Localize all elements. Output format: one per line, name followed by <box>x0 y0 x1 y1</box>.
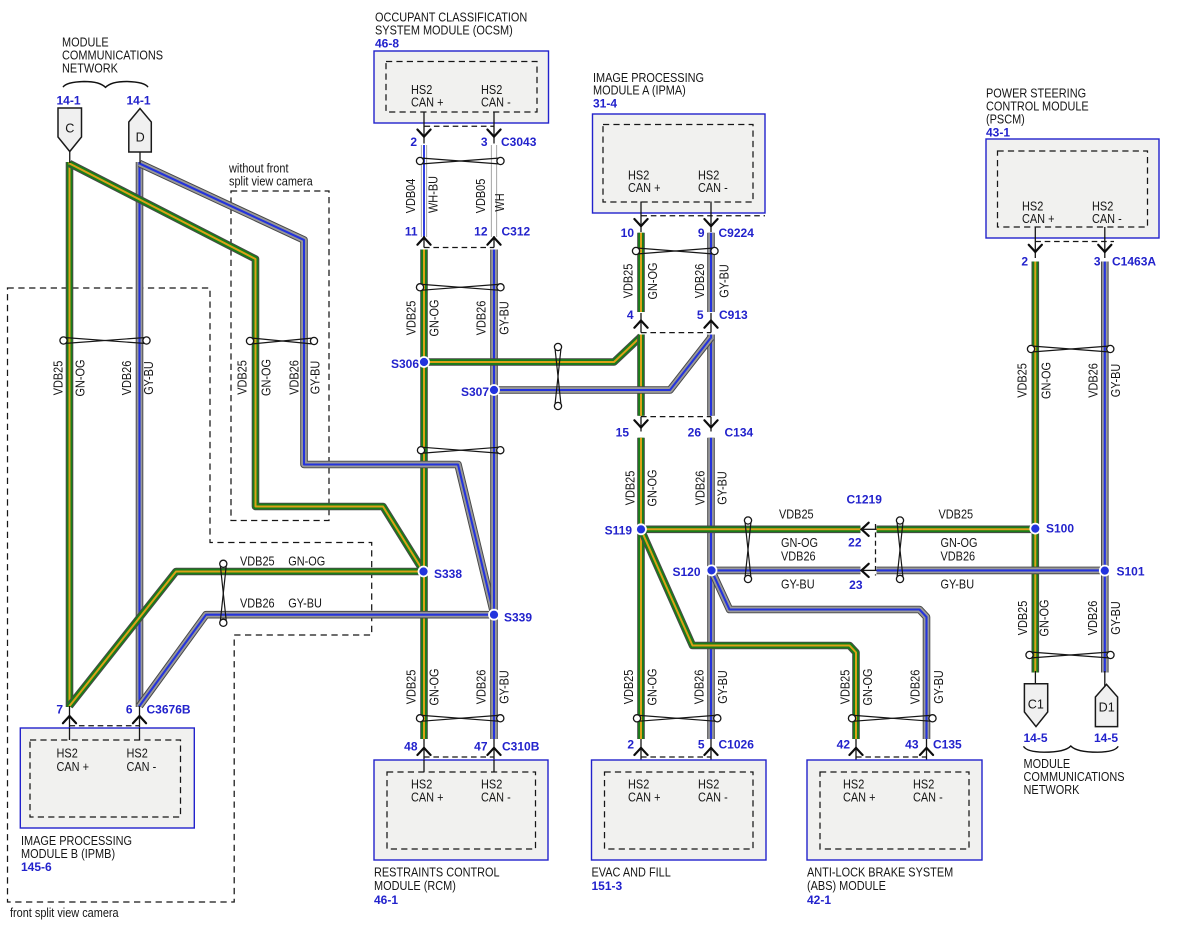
connector C1463A label <box>1112 255 1156 269</box>
module RCM box <box>374 760 548 860</box>
svg-text:C1463A: C1463A <box>1112 255 1156 269</box>
svg-text:VDB25: VDB25 <box>621 670 636 705</box>
module IPMB text HS2 CAN - (pin 6) <box>127 746 157 775</box>
wire label VDB26 <box>474 670 489 705</box>
wire label GN-OG <box>259 359 274 396</box>
splice S306 <box>419 357 429 367</box>
svg-text:GN-OG: GN-OG <box>1037 600 1052 637</box>
OCSM pin 3 arrow <box>487 130 500 137</box>
RCM pin 48 label <box>404 740 418 754</box>
connector D1 cavity label 14-5 <box>1094 731 1118 745</box>
svg-text:VDB26: VDB26 <box>908 670 923 705</box>
wire VDB26 GY-BU from C913 pin 5 to C134 pin 26 <box>707 335 715 416</box>
svg-text:CAN +: CAN + <box>411 790 444 805</box>
svg-text:VDB25: VDB25 <box>235 360 250 395</box>
C1219 pin 23 label <box>849 578 863 592</box>
wire label VDB25 <box>838 670 853 705</box>
twisted pair symbol (above C1/D1) <box>1026 651 1114 658</box>
wire label GY-BU <box>715 670 730 704</box>
RCM pin 47 label <box>474 740 488 754</box>
IPMB pin 7 stub <box>69 706 71 740</box>
svg-text:GN-OG: GN-OG <box>645 263 660 300</box>
connector C stub wire <box>69 151 71 163</box>
svg-text:4: 4 <box>627 308 634 322</box>
wire label VDB05 <box>473 179 488 214</box>
connector D cavity label 14-1 <box>126 94 150 108</box>
svg-text:VDB26: VDB26 <box>287 360 302 395</box>
wire label VDB26 <box>941 549 976 564</box>
IPMB pin 6 stub <box>139 706 141 740</box>
splice S120 <box>707 565 717 575</box>
C1219 pin 22 label <box>848 536 862 550</box>
svg-text:VDB26: VDB26 <box>781 549 816 564</box>
IPMA pin 10 stub <box>640 202 642 233</box>
svg-text:VDB26: VDB26 <box>692 264 707 299</box>
svg-text:9: 9 <box>698 226 705 240</box>
svg-text:D: D <box>136 131 145 145</box>
svg-text:(PSCM): (PSCM) <box>986 112 1025 127</box>
C312 pin 11 label <box>405 225 418 239</box>
RCM pin 48 stub <box>423 739 425 772</box>
wire VDB26 GY-BU from C134 pin 26 through S120 to EVAC pin 5 <box>707 438 715 739</box>
wire label GY-BU <box>308 361 323 395</box>
svg-text:GY-BU: GY-BU <box>1108 364 1123 398</box>
svg-text:C1: C1 <box>1028 698 1044 712</box>
svg-text:split view camera: split view camera <box>229 174 313 189</box>
wire label GY-BU <box>141 361 156 395</box>
module OCSM box <box>374 51 549 123</box>
svg-text:CAN +: CAN + <box>628 790 661 805</box>
wire VDB25 GN-OG from IPMA pin 10 to C913 pin 4 <box>637 233 645 312</box>
svg-text:VDB25: VDB25 <box>240 554 275 569</box>
wire label VDB26 <box>781 549 816 564</box>
wire label GY-BU <box>715 471 730 505</box>
module IPMA text HS2 CAN + (pin 10) <box>628 168 661 196</box>
connector C1 cavity label 14-5 <box>1023 731 1047 745</box>
IPMB pin 7 stub inside box <box>69 728 71 740</box>
connector C (module communications network 14-1) <box>58 108 82 152</box>
svg-text:GN-OG: GN-OG <box>645 669 660 706</box>
svg-text:CAN -: CAN - <box>698 180 728 195</box>
connector C134 label <box>725 426 754 440</box>
svg-text:S306: S306 <box>391 357 419 371</box>
wire label VDB25 <box>779 507 814 522</box>
EVAC pin 5 label <box>698 738 705 752</box>
wire VDB26 GY-BU from splice S120 to C1219 pin 23 <box>712 567 861 575</box>
wire label VDB25 <box>1015 601 1030 636</box>
wire label GY-BU <box>941 577 975 592</box>
C913 pin 4 label <box>627 308 634 322</box>
EVAC pin 2 arrow <box>634 748 647 755</box>
svg-text:WH: WH <box>492 193 507 211</box>
C913 pin 5 stub <box>710 313 712 333</box>
splice S306 label <box>391 357 419 371</box>
wire VDB25 GN-OG from C312 pin 11 through S306 and S338 to RCM pin 48 <box>420 250 428 740</box>
option region: front split view camera (dashed outline) <box>8 288 372 902</box>
svg-text:CAN +: CAN + <box>57 759 90 774</box>
wire label VDB26 <box>908 670 923 705</box>
IPMB pin 6 arrow <box>133 716 146 723</box>
wire label GN-OG <box>645 470 660 507</box>
twisted pair symbol (without-camera pair) <box>246 337 317 344</box>
module ABS title <box>807 865 953 894</box>
svg-text:23: 23 <box>849 578 863 592</box>
wire VDB04 WH-BU from OCSM pin 2 to C312 pin 11 <box>421 145 427 237</box>
connector D (module communications network 14-1) <box>129 109 152 153</box>
RCM pin 47 stub inside box <box>493 760 495 772</box>
wire label VDB25 <box>404 670 419 705</box>
C312 pin 12 stub <box>493 236 495 248</box>
svg-text:VDB26: VDB26 <box>240 596 275 611</box>
twisted pair symbol (RCM pair) <box>416 715 504 722</box>
svg-text:GY-BU: GY-BU <box>931 670 946 704</box>
wire label GN-OG <box>288 554 325 569</box>
wire VDB25 GN-OG from C134 pin 15 through S119 to EVAC pin 2 <box>637 438 645 739</box>
svg-text:CAN -: CAN - <box>481 95 511 110</box>
svg-text:C312: C312 <box>502 225 531 239</box>
splice S101 <box>1100 566 1110 576</box>
wire VDB26 GY-BU from C1219 pin 23 to splice S101 <box>877 567 1105 575</box>
option region: without front split view camera (dashed box) <box>231 191 329 521</box>
svg-text:C135: C135 <box>933 738 962 752</box>
twisted pair symbol (pair above S338) <box>417 447 504 454</box>
svg-text:GY-BU: GY-BU <box>288 596 322 611</box>
wire label VDB25 <box>1015 363 1030 398</box>
svg-text:GN-OG: GN-OG <box>1039 362 1054 399</box>
svg-text:S307: S307 <box>461 385 489 399</box>
EVAC pin 2 stub <box>640 739 642 772</box>
svg-text:GY-BU: GY-BU <box>715 670 730 704</box>
svg-text:WH-BU: WH-BU <box>426 176 441 213</box>
connector C310B dashed pin line <box>424 756 494 758</box>
svg-text:VDB26: VDB26 <box>1085 601 1100 636</box>
connector C312 dashed pin line <box>424 247 494 249</box>
wire label VDB25 <box>235 360 250 395</box>
wire label GN-OG <box>1039 362 1054 399</box>
svg-text:EVAC AND FILL: EVAC AND FILL <box>592 865 671 880</box>
svg-text:CAN -: CAN - <box>481 790 511 805</box>
module RCM title <box>374 865 500 894</box>
wire label GN-OG <box>781 535 818 550</box>
connector C3043 label <box>501 135 537 149</box>
IPMA pin 10 label <box>621 226 635 240</box>
wire VDB26 GY-BU from splice S120 to ABS pin 43 <box>712 571 927 740</box>
svg-text:GY-BU: GY-BU <box>141 361 156 395</box>
svg-text:5: 5 <box>697 308 704 322</box>
wire label VDB26 <box>1085 601 1100 636</box>
ABS pin 43 label <box>905 738 919 752</box>
svg-text:2: 2 <box>410 135 417 149</box>
wire label GN-OG <box>427 300 442 337</box>
twisted pair symbol (EVAC pair) <box>633 715 721 722</box>
module IPMA box <box>593 114 766 213</box>
wire VDB26 GY-BU from PSCM pin 3 through S101 to connector D1 <box>1101 262 1109 673</box>
connector C1 (module communications network 14-5) <box>1024 684 1047 727</box>
svg-text:VDB26: VDB26 <box>474 301 489 336</box>
module PSCM page ref 43-1 <box>986 126 1010 140</box>
svg-text:VDB05: VDB05 <box>473 179 488 214</box>
wire VDB25 GN-OG from splice S119 to C1219 pin 22 <box>641 525 861 533</box>
connector C1026 label <box>719 738 755 752</box>
svg-text:VDB25: VDB25 <box>621 264 636 299</box>
svg-text:CAN +: CAN + <box>411 95 444 110</box>
splice S307 label <box>461 385 489 399</box>
module IPMB title <box>21 833 132 861</box>
IPMB pin 6 label <box>126 703 133 717</box>
svg-text:S120: S120 <box>672 565 700 579</box>
wire label VDB25 <box>404 301 419 336</box>
svg-text:GY-BU: GY-BU <box>1108 601 1123 635</box>
connector C cavity label 14-1 <box>56 94 80 108</box>
svg-text:GN-OG: GN-OG <box>645 470 660 507</box>
svg-text:14-1: 14-1 <box>126 94 150 108</box>
svg-text:S101: S101 <box>1117 565 1145 579</box>
option region label: without front split view camera <box>228 161 313 189</box>
module EVAC text HS2 CAN - (pin 5) <box>698 777 728 805</box>
svg-text:47: 47 <box>474 740 488 754</box>
svg-text:GY-BU: GY-BU <box>781 577 815 592</box>
C913 pin 4 arrow <box>634 321 647 328</box>
svg-text:GY-BU: GY-BU <box>308 361 323 395</box>
OCSM pin 2 label <box>410 135 417 149</box>
ABS pin 42 arrow <box>849 748 862 755</box>
wire VDB25 GN-OG from connector C down to IPMB pin 7 <box>66 162 74 707</box>
svg-text:43: 43 <box>905 738 919 752</box>
svg-text:VDB26: VDB26 <box>692 670 707 705</box>
svg-text:NETWORK: NETWORK <box>62 61 118 76</box>
svg-text:VDB25: VDB25 <box>838 670 853 705</box>
twisted pair symbol (IPMA VDB25/VDB26) <box>632 247 718 254</box>
twisted pair symbol (C/D pair) <box>60 337 150 344</box>
option region label: front split view camera <box>10 905 119 920</box>
svg-text:S338: S338 <box>434 567 462 581</box>
C312 pin 12 label <box>474 225 488 239</box>
twisted pair symbol (VDB04/VDB05) <box>416 157 504 164</box>
wire label VDB26 <box>692 670 707 705</box>
connector D stub wire <box>139 152 141 164</box>
wire label VDB26 <box>474 301 489 336</box>
IPMB pin 7 label <box>56 703 63 717</box>
svg-text:43-1: 43-1 <box>986 126 1010 140</box>
svg-text:11: 11 <box>405 225 418 239</box>
wire label GY-BU <box>497 301 512 335</box>
svg-text:VDB26: VDB26 <box>1086 363 1101 398</box>
svg-text:42-1: 42-1 <box>807 893 831 907</box>
svg-text:SYSTEM MODULE (OCSM): SYSTEM MODULE (OCSM) <box>375 23 513 38</box>
wire label VDB25 <box>623 471 638 506</box>
svg-text:2: 2 <box>1021 255 1028 269</box>
IPMB pin 7 arrow <box>63 716 76 723</box>
EVAC pin 5 arrow <box>704 748 717 755</box>
wire VDB26 GY-BU from IPMA pin 9 to C913 pin 5 <box>707 233 715 312</box>
svg-text:C3676B: C3676B <box>147 703 191 717</box>
svg-text:MODULE B (IPMB): MODULE B (IPMB) <box>21 846 115 861</box>
svg-text:3: 3 <box>481 135 488 149</box>
svg-text:GY-BU: GY-BU <box>717 264 732 298</box>
wire label VDB26 <box>692 264 707 299</box>
svg-text:42: 42 <box>837 738 851 752</box>
RCM pin 47 stub <box>493 739 495 772</box>
connector D1 (module communications network 14-5) <box>1095 684 1117 726</box>
wire label GN-OG <box>645 263 660 300</box>
splice S119 label <box>605 524 633 538</box>
wire label VDB25 <box>621 264 636 299</box>
OCSM pin 3 label <box>481 135 488 149</box>
C134 pin 26 arrow <box>704 420 717 427</box>
C1219 pin 22 arrow <box>862 523 877 536</box>
connector C913 dashed pin line <box>641 332 711 334</box>
connector C3676B label <box>147 703 191 717</box>
wire label VDB25 <box>240 554 275 569</box>
svg-text:3: 3 <box>1094 255 1101 269</box>
svg-text:7: 7 <box>56 703 63 717</box>
svg-text:VDB26: VDB26 <box>474 670 489 705</box>
svg-text:VDB26: VDB26 <box>119 361 134 396</box>
svg-text:VDB25: VDB25 <box>779 507 814 522</box>
wire label GN-OG <box>645 669 660 706</box>
module OCSM title <box>375 10 527 38</box>
svg-text:MODULE (RCM): MODULE (RCM) <box>374 878 456 893</box>
module RCM page ref 46-1 <box>374 893 398 907</box>
svg-text:151-3: 151-3 <box>592 879 623 893</box>
IPMA pin 9 label <box>698 226 705 240</box>
svg-text:GN-OG: GN-OG <box>259 359 274 396</box>
wire label GY-BU <box>497 670 512 704</box>
svg-text:2: 2 <box>627 738 634 752</box>
twisted pair symbol (IPMB pair) <box>220 560 227 626</box>
connector C3043 dashed pin line <box>425 125 495 127</box>
svg-text:C134: C134 <box>725 426 754 440</box>
wire label GY-BU <box>931 670 946 704</box>
module IPMA title <box>593 70 704 98</box>
svg-text:VDB25: VDB25 <box>404 301 419 336</box>
PSCM pin 3 label <box>1094 255 1101 269</box>
wire VDB26 GY-BU from C312 pin 12 through S307 and S339 to RCM pin 47 <box>490 250 498 740</box>
connector C1 stub wire <box>1034 671 1036 685</box>
PSCM pin 2 stub <box>1034 227 1036 258</box>
module IPMB text HS2 CAN + (pin 7) <box>57 746 90 775</box>
module RCM text HS2 CAN + (pin 48) <box>411 777 444 805</box>
twisted pair symbol (PSCM pair) <box>1027 345 1114 352</box>
svg-text:46-1: 46-1 <box>374 893 398 907</box>
PSCM pin 3 stub <box>1104 227 1106 258</box>
C913 pin 5 arrow <box>704 321 717 328</box>
module EVAC AND FILL box <box>592 760 767 860</box>
splice S119 <box>636 524 646 534</box>
svg-text:CAN +: CAN + <box>628 180 661 195</box>
svg-text:C310B: C310B <box>502 740 540 754</box>
module RCM text HS2 CAN - (pin 47) <box>481 777 511 805</box>
wire label WH <box>492 193 507 211</box>
twisted pair symbol (ABS pair) <box>848 715 936 722</box>
svg-text:10: 10 <box>621 226 635 240</box>
connector C1219 label <box>847 493 883 507</box>
wire label GN-OG <box>427 669 442 706</box>
wire VDB25 GN-OG from splice S306 to IPMA C913 pin 4 <box>424 337 641 363</box>
wire label VDB25 <box>51 361 66 396</box>
wire label GN-OG <box>941 535 978 550</box>
svg-text:VDB25: VDB25 <box>1015 601 1030 636</box>
splice S307 <box>489 385 499 395</box>
svg-text:S100: S100 <box>1046 522 1074 536</box>
module ABS text HS2 CAN - (pin 43) <box>913 777 943 805</box>
svg-text:C3043: C3043 <box>501 135 537 149</box>
splice S339 <box>489 610 499 620</box>
svg-text:14-5: 14-5 <box>1094 731 1118 745</box>
module communications network label (top left) <box>62 35 163 76</box>
connector C1463A dashed pin line <box>1035 241 1114 243</box>
twisted pair symbol (VDB25/VDB26 below C312) <box>416 284 504 291</box>
ABS pin 42 stub <box>855 739 857 772</box>
splice S338 label <box>434 567 462 581</box>
svg-text:C1026: C1026 <box>719 738 755 752</box>
EVAC pin 2 label <box>627 738 634 752</box>
splice S120 label <box>672 565 700 579</box>
svg-text:26: 26 <box>688 426 702 440</box>
svg-text:GY-BU: GY-BU <box>497 301 512 335</box>
svg-text:5: 5 <box>698 738 705 752</box>
ABS pin 43 arrow <box>920 748 933 755</box>
svg-text:NETWORK: NETWORK <box>1024 782 1080 797</box>
twisted pair symbol (S306/S307 pair) <box>554 343 561 409</box>
PSCM pin 2 arrow <box>1029 245 1042 252</box>
wire label VDB26 <box>240 596 275 611</box>
ABS pin 42 label <box>837 738 851 752</box>
OCSM pin 2 arrow <box>417 130 430 137</box>
svg-text:22: 22 <box>848 536 862 550</box>
module EVAC page ref 151-3 <box>592 879 623 893</box>
wire label GN-OG <box>73 360 88 397</box>
connector C9224 dashed pin line <box>641 215 765 217</box>
C913 pin 4 stub <box>640 313 642 333</box>
connector C913 label <box>719 308 748 322</box>
connector C134 dashed pin line <box>641 416 711 418</box>
svg-text:C1219: C1219 <box>847 493 883 507</box>
C312 pin 12 arrow <box>487 238 500 245</box>
svg-text:GN-OG: GN-OG <box>427 669 442 706</box>
wire VDB26 GY-BU from splice S307 to IPMA C913 pin 5 <box>494 338 711 391</box>
splice S100 <box>1030 524 1040 534</box>
svg-text:VDB25: VDB25 <box>51 361 66 396</box>
svg-text:15: 15 <box>616 426 630 440</box>
svg-text:VDB25: VDB25 <box>623 471 638 506</box>
connector C135 dashed pin line <box>856 756 927 758</box>
wire label GY-BU <box>1108 601 1123 635</box>
svg-text:CAN -: CAN - <box>698 790 728 805</box>
connector D1 stub wire <box>1104 671 1106 686</box>
connector C1026 dashed pin line <box>641 756 711 758</box>
C312 pin 11 arrow <box>417 238 430 245</box>
wire label VDB25 <box>621 670 636 705</box>
splice S338 <box>419 567 429 577</box>
svg-text:D1: D1 <box>1099 701 1115 715</box>
IPMA pin 10 arrow <box>634 219 647 226</box>
wire VDB25 GN-OG from PSCM pin 2 through S100 to connector C1 <box>1032 262 1040 673</box>
wire label GY-BU <box>1108 364 1123 398</box>
connector C9224 label <box>719 226 755 240</box>
svg-text:12: 12 <box>474 225 488 239</box>
connector C135 label <box>933 738 962 752</box>
wire VDB25 GN-OG from C913 pin 4 to C134 pin 15 <box>637 335 645 416</box>
ABS pin 43 stub <box>926 739 928 772</box>
svg-text:VDB04: VDB04 <box>403 179 418 214</box>
C913 pin 5 label <box>697 308 704 322</box>
wire label VDB26 <box>287 360 302 395</box>
svg-text:14-1: 14-1 <box>56 94 80 108</box>
wire label GN-OG <box>1037 600 1052 637</box>
connector C310B label <box>502 740 540 754</box>
module IPMB box <box>20 728 194 828</box>
